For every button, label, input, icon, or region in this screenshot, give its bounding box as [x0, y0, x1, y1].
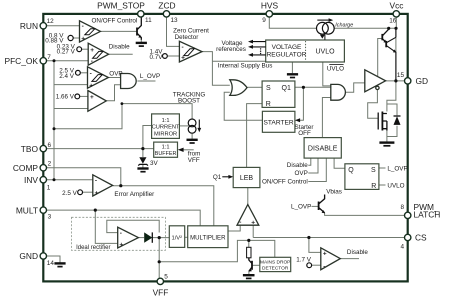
- svg-text:11: 11: [145, 17, 152, 24]
- svg-text:Q: Q: [348, 167, 354, 174]
- svg-text:0.27 V: 0.27 V: [57, 48, 76, 55]
- svg-text:-: -: [90, 106, 92, 113]
- svg-text:BUFFER: BUFFER: [155, 151, 177, 157]
- svg-text:CURRENT: CURRENT: [152, 125, 180, 131]
- svg-text:5: 5: [164, 273, 168, 280]
- svg-text:LEB: LEB: [240, 175, 254, 182]
- svg-text:L_OVP: L_OVP: [387, 165, 407, 172]
- svg-text:1.66 V: 1.66 V: [56, 93, 75, 100]
- svg-text:DETECTOR: DETECTOR: [262, 266, 289, 272]
- svg-text:ON/OFF Control: ON/OFF Control: [262, 179, 308, 186]
- svg-text:6: 6: [48, 142, 52, 149]
- svg-text:GND: GND: [19, 251, 38, 261]
- svg-text:-: -: [239, 219, 241, 226]
- svg-text:UVLO: UVLO: [387, 182, 404, 189]
- svg-text:L_OVP: L_OVP: [140, 73, 160, 80]
- svg-text:0.7V: 0.7V: [150, 54, 164, 61]
- svg-text:13: 13: [171, 17, 179, 24]
- svg-text:LATCH: LATCH: [414, 210, 441, 220]
- svg-text:BOOST: BOOST: [178, 98, 200, 105]
- svg-text:-: -: [120, 230, 122, 237]
- svg-text:+: +: [119, 242, 123, 249]
- svg-text:STARTER: STARTER: [264, 120, 294, 127]
- svg-text:Internal Supply Bus: Internal Supply Bus: [218, 63, 273, 70]
- svg-text:-: -: [91, 58, 93, 65]
- svg-text:references: references: [216, 46, 246, 53]
- svg-text:MIRROR: MIRROR: [154, 131, 177, 137]
- svg-text:COMP: COMP: [13, 163, 39, 173]
- svg-text:Detector: Detector: [175, 34, 199, 41]
- svg-text:+: +: [95, 190, 99, 197]
- svg-text:ZCD: ZCD: [158, 1, 175, 11]
- svg-text:R: R: [266, 101, 271, 108]
- svg-text:+: +: [181, 55, 185, 62]
- svg-text:ON/OFF Control: ON/OFF Control: [92, 18, 138, 25]
- svg-text:-: -: [95, 177, 97, 184]
- svg-text:MULTIPLIER: MULTIPLIER: [190, 235, 226, 242]
- svg-text:Ideal rectifier: Ideal rectifier: [76, 245, 110, 251]
- svg-text:OVP: OVP: [294, 170, 307, 177]
- svg-text:MULT: MULT: [16, 205, 38, 215]
- svg-text:UVLO: UVLO: [327, 65, 344, 72]
- svg-text:+: +: [81, 35, 85, 42]
- svg-text:7: 7: [47, 54, 51, 61]
- svg-text:CS: CS: [415, 233, 427, 243]
- svg-text:INV: INV: [24, 175, 38, 185]
- svg-text:3V: 3V: [150, 160, 159, 167]
- svg-text:DISABLE: DISABLE: [308, 146, 338, 153]
- svg-text:+: +: [90, 47, 94, 54]
- svg-text:OFF: OFF: [298, 130, 311, 137]
- svg-text:TBO: TBO: [21, 144, 39, 154]
- svg-text:Q1: Q1: [282, 85, 291, 92]
- svg-text:REGULATOR: REGULATOR: [267, 51, 307, 58]
- svg-text:Vbias: Vbias: [326, 188, 342, 195]
- svg-text:S: S: [266, 85, 271, 92]
- svg-text:2.5 V: 2.5 V: [62, 190, 78, 197]
- svg-text:14: 14: [47, 260, 55, 267]
- svg-text:L_OVP: L_OVP: [291, 204, 311, 211]
- svg-text:+: +: [89, 83, 93, 90]
- svg-text:Disable: Disable: [287, 162, 308, 169]
- svg-text:-: -: [90, 71, 92, 78]
- svg-text:16: 16: [389, 17, 397, 24]
- svg-text:MAINS DROP: MAINS DROP: [260, 260, 290, 266]
- svg-text:HVS: HVS: [261, 1, 279, 11]
- svg-text:S: S: [371, 167, 376, 174]
- svg-text:4: 4: [400, 244, 404, 251]
- svg-text:-: -: [182, 44, 184, 51]
- svg-text:OVP: OVP: [109, 71, 122, 78]
- svg-text:Disable: Disable: [347, 249, 368, 256]
- svg-text:3: 3: [48, 214, 52, 221]
- svg-text:Q1: Q1: [213, 174, 222, 181]
- svg-text:PWM_STOP: PWM_STOP: [97, 1, 145, 11]
- svg-text:1/V²: 1/V²: [171, 236, 182, 242]
- svg-text:2.4 V: 2.4 V: [59, 73, 75, 80]
- svg-text:Icharge: Icharge: [335, 22, 353, 28]
- svg-text:+: +: [323, 250, 327, 257]
- svg-text:GD: GD: [416, 76, 429, 86]
- svg-text:9: 9: [262, 17, 266, 24]
- svg-text:1:1: 1:1: [162, 118, 170, 124]
- svg-text:Disable: Disable: [109, 44, 130, 51]
- svg-text:15: 15: [397, 72, 405, 79]
- svg-text:VFF: VFF: [153, 288, 169, 298]
- svg-text:RUN: RUN: [20, 21, 38, 31]
- svg-text:1: 1: [47, 185, 51, 192]
- svg-text:VFF: VFF: [188, 157, 200, 164]
- svg-text:2: 2: [48, 161, 52, 168]
- svg-text:Error Amplifier: Error Amplifier: [114, 191, 154, 198]
- svg-text:-: -: [323, 263, 325, 270]
- svg-text:UVLO: UVLO: [315, 49, 335, 56]
- svg-text:PFC_OK: PFC_OK: [4, 56, 38, 66]
- svg-text:1.7 V: 1.7 V: [296, 256, 312, 263]
- svg-text:-: -: [82, 23, 84, 30]
- svg-text:VOLTAGE: VOLTAGE: [272, 44, 302, 51]
- svg-text:12: 12: [47, 18, 55, 25]
- svg-text:+: +: [251, 219, 255, 226]
- svg-text:R: R: [371, 183, 376, 190]
- svg-text:1:1: 1:1: [162, 144, 170, 150]
- svg-text:8: 8: [400, 204, 404, 211]
- svg-text:+: +: [90, 94, 94, 101]
- svg-text:Vcc: Vcc: [390, 1, 404, 11]
